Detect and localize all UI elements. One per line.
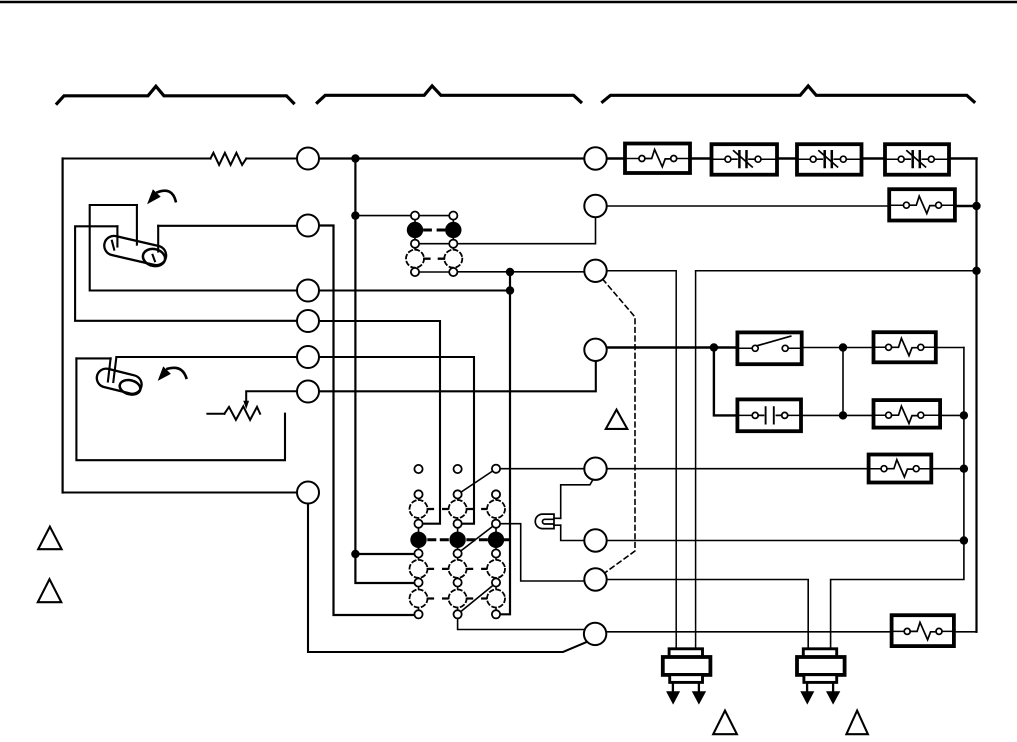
terminal TR3 [584,260,606,282]
contact dashed l-rowI col2 [449,590,467,608]
note triangle 4 [713,711,737,735]
wire TR2 to coil box K5 [607,205,890,207]
wire cool right lead to T5 [116,356,297,358]
node dot x976 row3 [972,267,980,275]
contact filled u-row2 col2 [445,222,461,238]
linkage dashes u-row4 [424,258,444,260]
coil box K1 [874,332,936,362]
terminal TR8 [584,623,606,645]
contact small l-rowB col1 [414,490,422,498]
wire TR3 to plug pin A [607,271,677,649]
contact filled u-row2 col1 [407,222,423,238]
lower stack column stubs [419,498,497,610]
contact filled l-rowE col1 [410,532,426,548]
wire K3 to rail x964 [931,468,964,470]
wire electrode A [136,205,138,245]
thermal protector box P3 [885,144,949,175]
terminal T6 [297,381,319,403]
terminal T7 [297,482,319,504]
contact dashed l-rowC col1 [410,500,428,518]
contact small l-rowF col3 [492,549,500,557]
terminal TR7 [584,568,606,590]
thermal protector box P1 [712,144,778,175]
wire electrode C tick [153,255,155,261]
contact small l-rowA col3 [492,465,500,473]
terminal T5 [297,346,319,368]
wire branch row F [355,553,414,555]
wire K1 to rail x964 [936,347,964,349]
contact small l-rowH col3 [492,578,500,586]
node dot mid rail top [839,343,847,351]
potentiometer heat anticipator [224,406,260,420]
wire TR7 to plug2 pin A [607,580,809,649]
wire TR8 to coil K4 [606,631,891,633]
contact small u-row3 col2 [449,240,457,248]
terminal TR2 [584,195,606,217]
wire T4 rail x440 [319,321,440,524]
wire col3 rowA to TR5 [500,468,585,470]
wire TR1 chain top row [607,157,977,159]
node dot x976 row2 [972,202,980,210]
linkage dashes l-rowG [428,568,487,570]
dashed link TR3 to TR7 [603,279,635,573]
contact small l-rowB col2 [454,490,462,498]
wire rail x510 [500,272,510,614]
contact small l-rowA col1 [414,465,422,473]
wire T7 left loop [63,491,297,493]
contact dashed u-row4 col2 [444,250,462,268]
wire left rail x62 [61,159,63,493]
contact filled l-rowE col2 [449,532,465,548]
node dot x964 TR6 [960,536,968,544]
wire electrode B [116,226,118,246]
wire electrode D [108,358,111,381]
coil box K4 [892,615,954,646]
quick-connect plug 1 [663,649,711,705]
brace: thermostat section [57,86,294,103]
brace: subbase section [317,86,581,103]
diagonal col2F-col3D [461,526,493,551]
wire pin B to rail [696,270,977,272]
coil box K2 [874,400,941,428]
wire electrode E [113,357,116,382]
node dot x510 row5 [506,268,514,276]
wire T5 rail x474 [319,357,474,524]
contact small l-rowH col2 [454,578,462,586]
node dot mid rail bottom [839,411,847,419]
mercury switch heat bulb [102,234,168,268]
contact small l-rowJ col3 [492,610,500,618]
wire electrode B tick [112,241,114,250]
contact box C1 [737,399,801,431]
node dot switch branch [710,343,718,351]
linkage dashes l-rowI [428,597,487,599]
contact small l-rowD col2 [454,520,462,528]
top rule line [0,1,1017,3]
linkage dashes u-row2 [425,229,444,232]
contact small l-rowJ col2 [454,610,462,618]
arrow rotate heat [158,191,176,202]
wire right rail x976 [975,159,977,632]
contact small u-row5 col2 [449,268,457,276]
coil box K3 [869,455,932,483]
contact small u-row3 col1 [411,240,419,248]
upper stack column stubs [415,219,453,268]
terminal TR1 [584,147,606,169]
wire T7 bottom run to TR8 [308,504,589,652]
wire cool left loop [76,357,110,359]
contact dashed l-rowG col2 [449,560,467,578]
wire K2 to rail x964 [940,414,964,416]
wire rail x355 [355,159,414,584]
quick-connect plug 2 [797,649,845,705]
terminal T2 [297,215,319,237]
contact dashed l-rowC col2 [449,500,467,518]
wire lamp stubs [554,518,561,525]
switch box S1 [737,332,801,364]
wire resistor to T1 [246,158,297,160]
contact small l-rowB col3 [492,490,500,498]
wire T1 to TR1 [319,157,584,159]
wire rail x964 [831,348,964,649]
contact small l-rowD col3 [492,520,500,528]
note triangle 2 [38,579,62,602]
contact dashed l-rowI col1 [410,590,428,608]
wire contact box to coil K2 [801,414,874,416]
indicator lamp [535,514,554,529]
wire anticipator wiper to T6 [246,391,297,401]
note triangle 1 [38,527,61,550]
wire T2 rail x333 [319,226,415,616]
contact dashed l-rowI col3 [487,590,505,608]
wire T6 to TR4 [319,361,596,391]
coil box K5 [889,189,955,220]
contact dashed l-rowG col1 [410,560,428,578]
contact dashed l-rowG col3 [487,560,505,578]
wire col2 rowJ to TR8 [458,618,585,629]
contact dashed u-row4 col1 [406,250,424,268]
wire heat right lead to T2 [158,225,297,227]
linkage dashes l-rowE [429,538,509,541]
wire row5 to rail x510 and TR3 [457,271,584,273]
resistor R fixed [211,153,247,165]
contact small l-rowH col1 [414,578,422,586]
wire row3 to TR2 [457,217,595,244]
contact small l-rowJ col1 [414,610,422,618]
wire branch to contact box [714,348,738,416]
wire top lead [63,158,211,160]
contact dashed l-rowC col3 [487,500,505,518]
node dot x355 row1 [351,211,359,219]
wire TR5 to lamp rail to TR6 [561,478,594,540]
wire K5 to rail [955,205,977,207]
mercury switch cool bulb [95,367,144,397]
wire heat bracket (electrode A loop to T3) [90,205,297,291]
wire TR4 to switch box [607,346,738,348]
note triangle 5 [846,711,868,735]
node dot x510 T3 [506,286,514,294]
terminal TR6 [584,529,606,551]
wire switch to coil K1 [802,347,874,349]
wire K4 to right rail [954,631,977,633]
wire electrode C [157,226,159,252]
node dot x355 top [351,154,359,162]
wire row1 link [419,215,450,217]
thermal protector box P2 [797,144,862,175]
wire anticipator open stub [207,413,224,415]
wire mid link rail [842,348,844,416]
wire branch upper stack row1 [355,215,411,217]
wire T3 to rail x510 [319,289,510,291]
node dot x355 row F [351,550,359,558]
terminal T3 [297,280,319,302]
contact small u-row1 col1 [411,212,419,220]
wire TR6 to rail x964 [607,540,964,542]
wire row5 link [419,271,450,273]
wire anticipator loop [76,358,285,460]
arrow rotate cool [168,368,187,378]
contact small u-row1 col2 [449,212,457,220]
note triangle 3 [606,410,628,429]
wire heat left loop to T4 [75,226,297,320]
contact small l-rowF col2 [454,549,462,557]
brace: equipment section [603,86,974,102]
contact small l-rowA col2 [454,465,462,473]
linkage dashes l-rowC [428,508,487,510]
diagonal col2J-col3H [461,585,494,612]
heater box H1 [625,144,690,174]
terminal TR4 [584,339,606,361]
contact small l-rowF col1 [414,549,422,557]
diagonal col2B-col3A [461,471,493,493]
node dot x964 K2 [960,411,968,419]
contact small l-rowD col1 [414,520,422,528]
terminal T1 [297,148,319,170]
contact small u-row5 col1 [411,268,419,276]
node dot x964 K3 [960,465,968,473]
terminal TR5 [584,458,606,480]
contact filled l-rowE col3 [488,532,504,548]
wire TR5 to coil K3 [607,468,869,470]
wire col3 rowD to TR7 [500,524,585,581]
anticipator wiper arrowhead [243,401,249,410]
wire plug pin B riser [695,271,697,649]
wire row3 link [419,243,450,245]
terminal T4 [297,310,319,332]
